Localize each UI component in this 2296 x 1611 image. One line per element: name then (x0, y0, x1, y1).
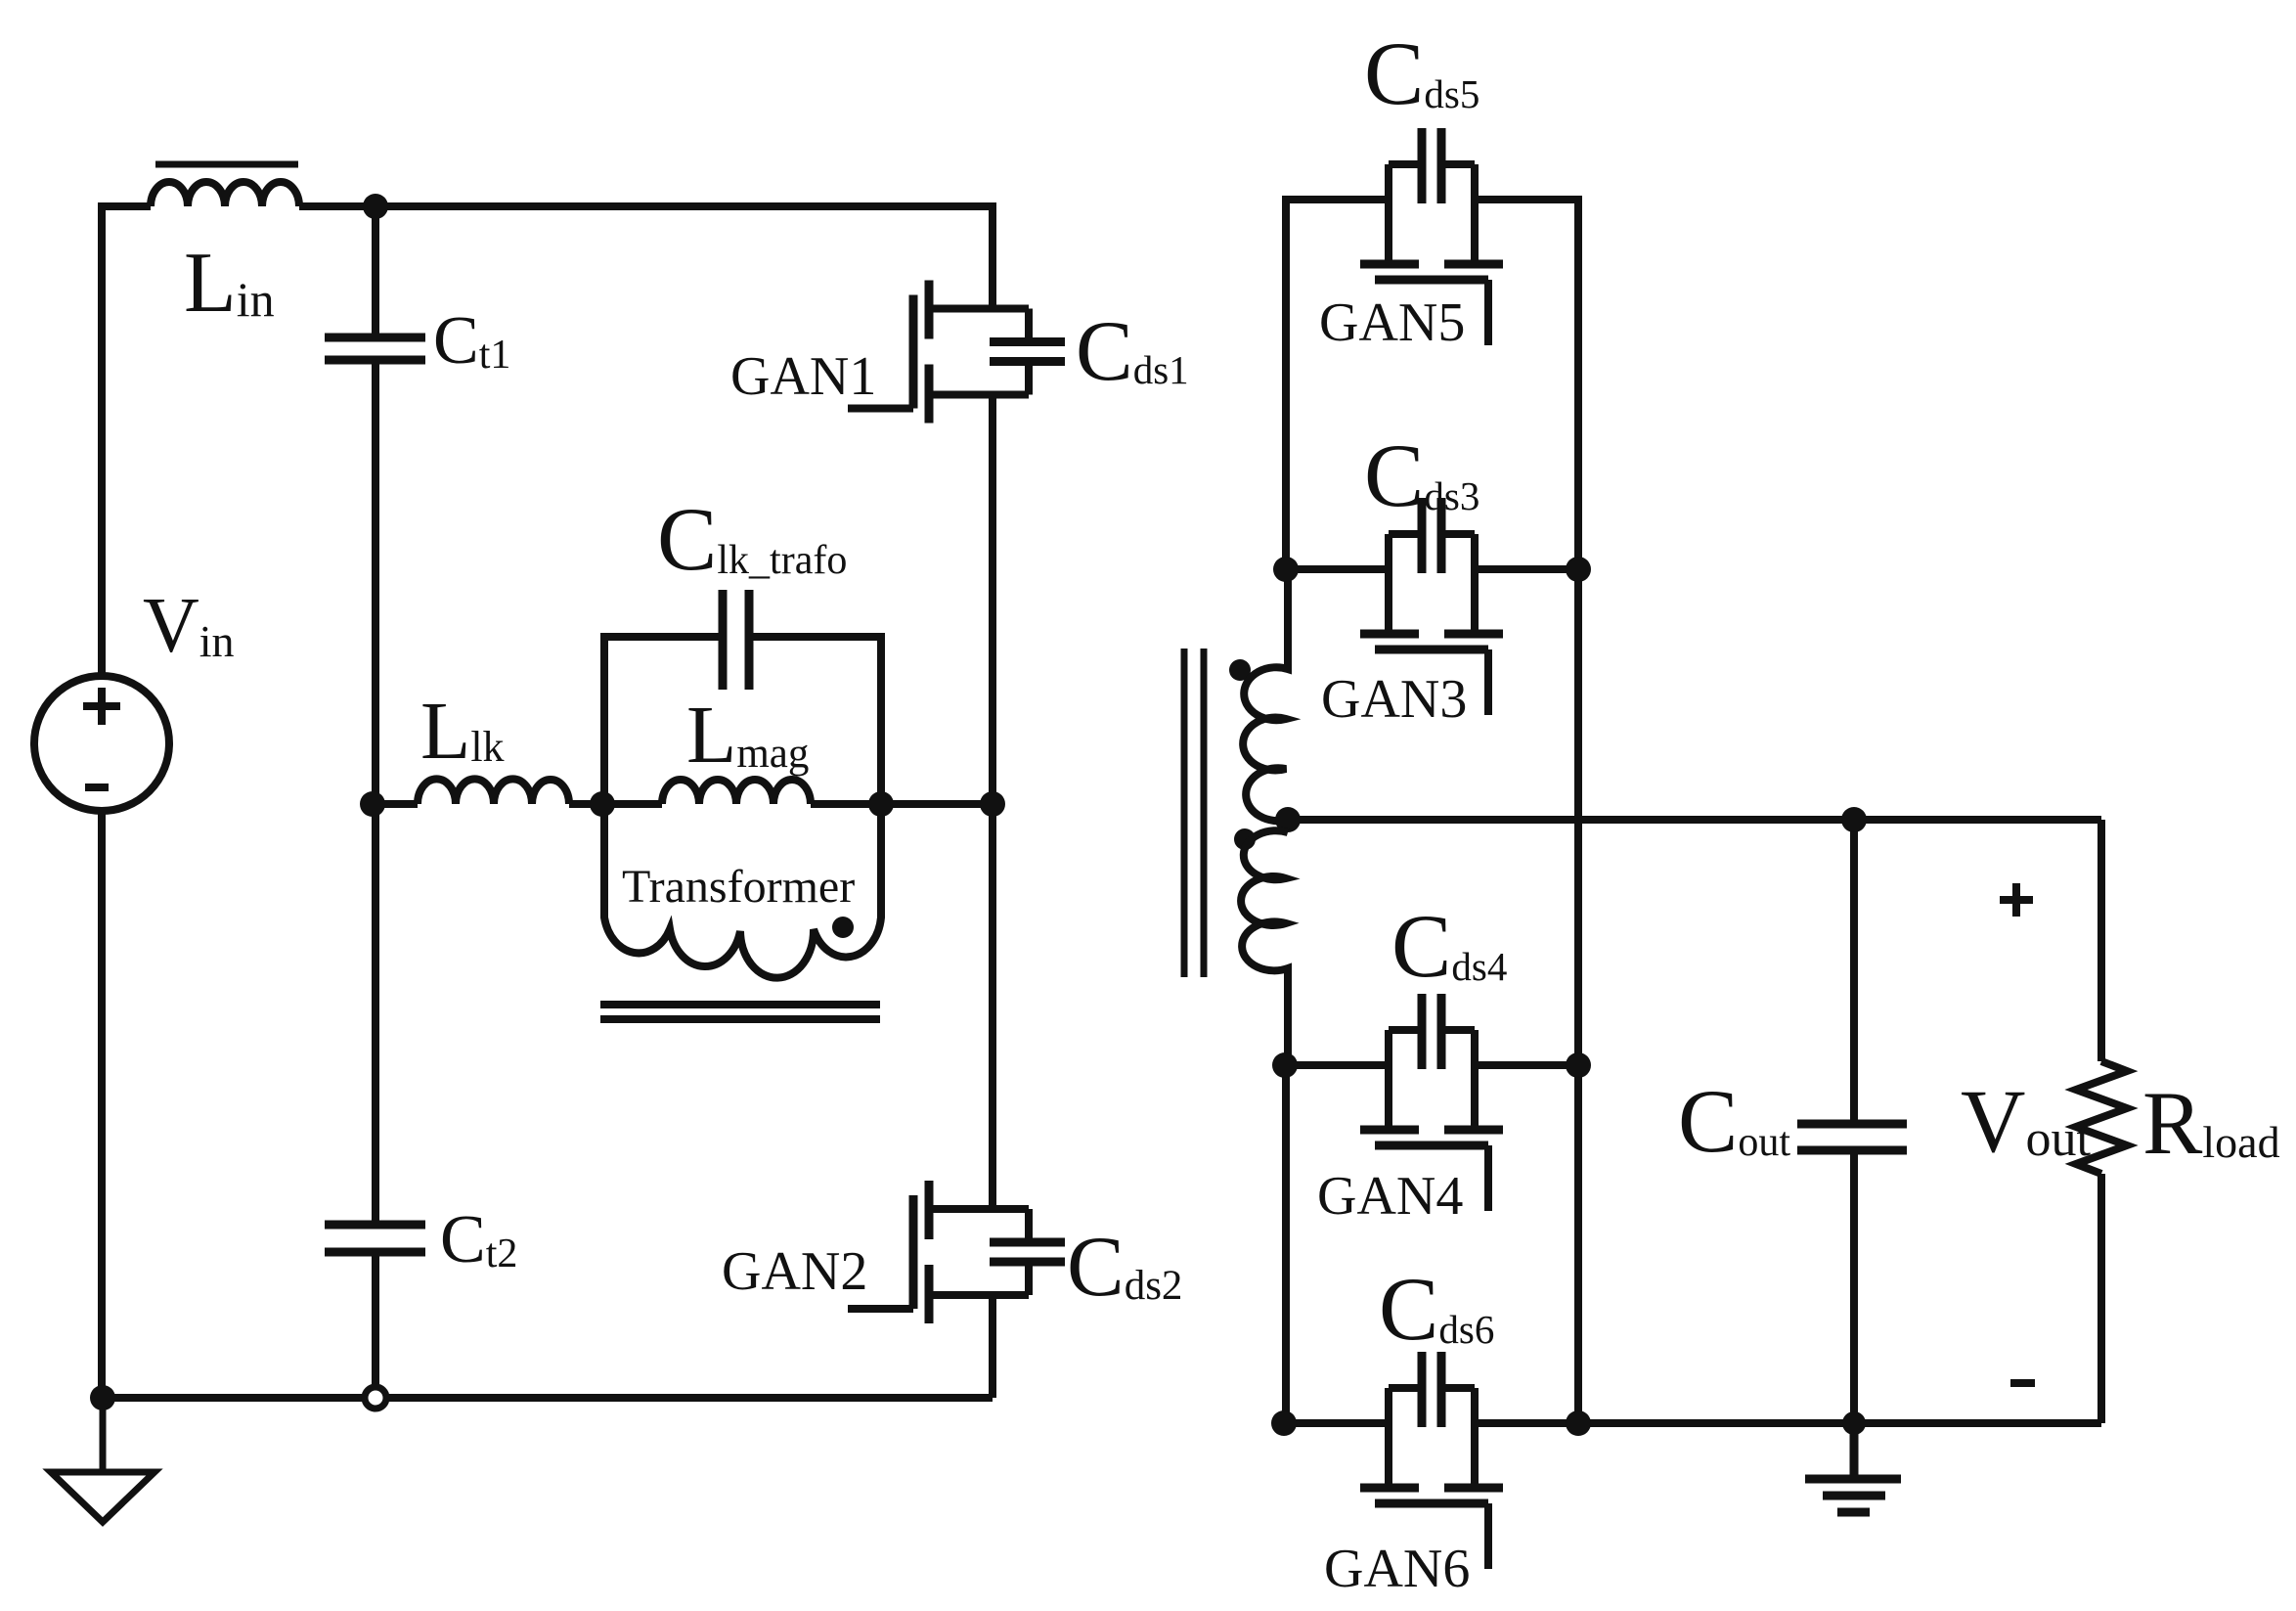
label - (Vout) (2010, 1379, 2035, 1387)
svg-text:GAN2: GAN2 (722, 1241, 867, 1302)
label + (Vout) (2000, 883, 2033, 917)
node B (Ct1 / Llk junction) (360, 791, 385, 817)
wire: center tap row to output (1288, 816, 2101, 824)
node E (rail / Lmag row junction) (980, 791, 1005, 817)
svg-text:GAN1: GAN1 (730, 346, 876, 407)
wire: row2 (GAN3) (1286, 565, 1578, 573)
ground (primary) (51, 1398, 155, 1522)
wire: GAN1 source rail down through Lmag row to GAN2 drain (989, 395, 996, 1210)
node N (right rail row4) (1566, 1410, 1591, 1436)
transformer secondary core lines (1184, 649, 1204, 977)
svg-text:GAN4: GAN4 (1317, 1166, 1463, 1227)
transistor GAN6 (1360, 1352, 1503, 1569)
wire: top rail from Vin+ corner to GAN1 drain (102, 206, 993, 675)
ground (secondary) (1805, 1423, 1901, 1512)
wire: Vin- down to ground row (98, 811, 106, 1398)
wire: Cout branch (1850, 820, 1858, 1423)
node H (center tap) (1275, 807, 1301, 832)
wire: bottom return row (102, 1295, 993, 1398)
node M (left rail row4) (1271, 1410, 1297, 1436)
wire: row3 (GAN4) (1286, 1061, 1578, 1069)
transformer primary core lines (600, 1005, 880, 1019)
transistor GAN5 (1360, 128, 1503, 345)
transformer primary winding (604, 804, 881, 978)
capacitor Cout (1797, 1124, 1907, 1150)
secondary phase dot (bottom) (1234, 828, 1256, 850)
inductor Llk (418, 779, 569, 804)
svg-text:GAN3: GAN3 (1321, 669, 1467, 730)
inductor Lmag (662, 780, 811, 804)
source Vin (34, 676, 169, 811)
node F (Vin- / ground) (90, 1385, 115, 1410)
transistor GAN4 (1360, 994, 1503, 1211)
node D (Lmag right / transformer) (868, 791, 894, 817)
capacitor Clk_trafo (604, 637, 881, 804)
wire: right rail of rectifier (1476, 200, 1578, 1423)
secondary winding (top half) (1243, 569, 1288, 821)
node L (right rail row3) (1566, 1052, 1591, 1078)
capacitor Ct1 (372, 206, 379, 804)
resistor Rload (2076, 1061, 2127, 1174)
node G (Ct2 / bottom row, open) (365, 1387, 386, 1409)
svg-text:GAN6: GAN6 (1324, 1539, 1470, 1599)
transistor GAN3 (1360, 498, 1503, 715)
wire: Llk row (371, 800, 993, 808)
node I (left rail / winding top) (1273, 557, 1299, 582)
capacitor Ct2 (372, 804, 379, 1398)
wire: left rail of rectifier (1286, 200, 1388, 569)
svg-text:Transformer: Transformer (622, 861, 855, 913)
node C (Llk / Lmag / transformer) (590, 791, 615, 817)
node O (center tap row / Cout) (1841, 807, 1867, 832)
Lin core bar (155, 161, 298, 168)
inductor Lin (151, 182, 299, 206)
node A (Lin / Ct1 junction) (363, 194, 388, 219)
wire: winding bottom to row3 and down to row4 (1282, 1065, 1290, 1423)
svg-text:GAN5: GAN5 (1319, 292, 1465, 353)
node J (right rail row2) (1566, 557, 1591, 582)
node P (Cout / ground row) (1842, 1411, 1866, 1435)
secondary phase dot (top) (1229, 659, 1251, 681)
transistor GAN1 (848, 281, 1065, 424)
transistor GAN2 (848, 1181, 1065, 1323)
wire: row4 (GAN6 / output return) (1286, 1419, 2101, 1427)
transformer phase dot (primary) (832, 917, 854, 938)
secondary winding (bottom half) (1241, 830, 1288, 1065)
wire: Rload branch (2097, 820, 2105, 1423)
node K (left rail row3) (1272, 1052, 1298, 1078)
